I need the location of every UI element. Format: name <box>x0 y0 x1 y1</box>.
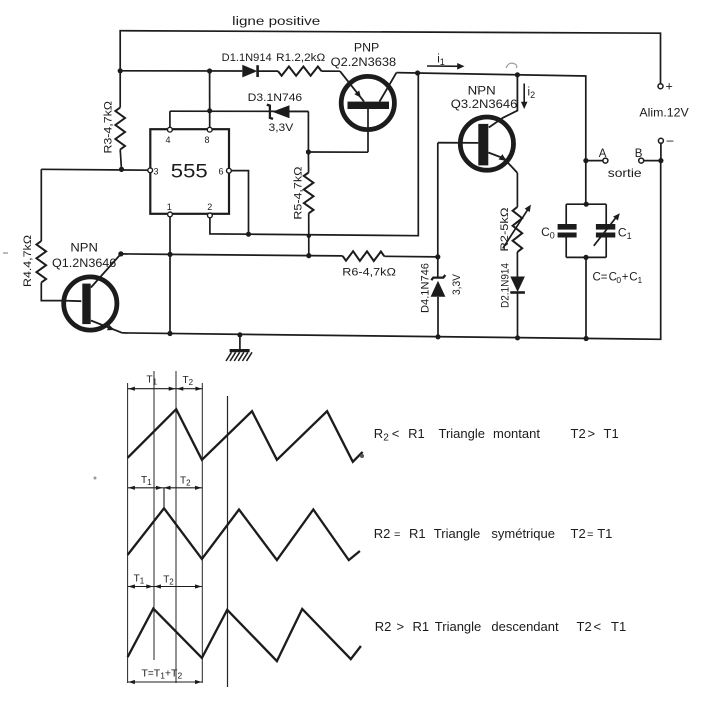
svg-text:6: 6 <box>219 167 224 177</box>
svg-text:A: A <box>599 148 607 160</box>
svg-text:ligne positive: ligne positive <box>232 14 320 28</box>
svg-text:R1.2,2kΩ: R1.2,2kΩ <box>276 52 325 64</box>
svg-text:555: 555 <box>171 161 208 183</box>
svg-text:R5-4,7kΩ: R5-4,7kΩ <box>293 167 305 220</box>
svg-text:3: 3 <box>154 166 159 176</box>
svg-text:3,3V: 3,3V <box>451 273 463 295</box>
svg-text:Alim.12V: Alim.12V <box>639 106 688 120</box>
svg-text:3,3V: 3,3V <box>269 122 295 134</box>
svg-text:8: 8 <box>205 135 210 145</box>
svg-text:Q2.2N3638: Q2.2N3638 <box>331 57 397 69</box>
svg-text:R2<R1TrianglemontantT2>T1: R2<R1TrianglemontantT2>T1 <box>374 426 619 444</box>
svg-text:D4.1N746: D4.1N746 <box>419 263 431 313</box>
svg-text:R2>R1TriangledescendantT2<T1: R2>R1TriangledescendantT2<T1 <box>375 619 626 634</box>
svg-text:NPN: NPN <box>70 243 98 255</box>
svg-text:R2-5kΩ: R2-5kΩ <box>499 208 511 252</box>
svg-text:D3.1N746: D3.1N746 <box>248 92 303 104</box>
svg-text:–: – <box>667 134 674 148</box>
svg-text:NPN: NPN <box>468 86 496 98</box>
svg-text:R2=R1TrianglesymétriqueT2=T1: R2=R1TrianglesymétriqueT2=T1 <box>374 526 613 541</box>
svg-text:R4.4,7kΩ: R4.4,7kΩ <box>22 235 34 287</box>
svg-text:R3-4,7kΩ: R3-4,7kΩ <box>103 101 115 154</box>
svg-text:+: + <box>666 80 673 94</box>
svg-text:sortie: sortie <box>608 166 642 180</box>
svg-text:1: 1 <box>167 202 172 212</box>
svg-text:Q1.2N3646: Q1.2N3646 <box>52 258 116 270</box>
svg-text:2: 2 <box>207 202 212 212</box>
svg-text:D1.1N914: D1.1N914 <box>222 52 272 64</box>
svg-text:R6-4,7kΩ: R6-4,7kΩ <box>342 267 396 279</box>
svg-text:B: B <box>635 148 643 160</box>
svg-text:T=T1+T2: T=T1+T2 <box>142 668 183 681</box>
svg-text:4: 4 <box>166 135 171 145</box>
svg-text:PNP: PNP <box>354 43 380 55</box>
svg-text:Q3.2N3646: Q3.2N3646 <box>451 99 518 111</box>
svg-text:D2.1N914: D2.1N914 <box>500 263 512 308</box>
